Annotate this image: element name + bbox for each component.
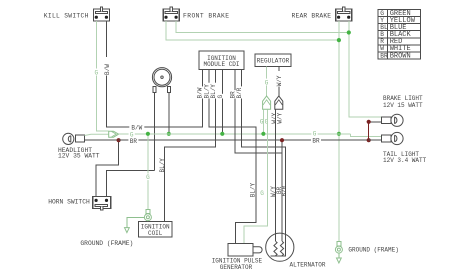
horn switch SW4 [93,197,111,211]
wire BR alternator to BR bus [281,140,283,241]
ground (frame) arrow left [125,228,130,233]
svg-text:REAR BRAKE: REAR BRAKE [292,13,332,20]
svg-text:GENERATOR: GENERATOR [220,264,253,271]
svg-text:12V 3.4 WATT: 12V 3.4 WATT [383,157,427,164]
wire G/Y rear brake right to brake light [349,21,382,117]
wire horn switch right up to horn [107,171,155,197]
svg-text:W: W [380,45,384,52]
junction dot CDI ground on G bus [220,132,224,136]
ground (frame) arrow right [337,258,342,263]
CDI pin 4 G wire to G bus [221,70,223,134]
svg-text:B/W: B/W [104,64,111,75]
wire B/W kill switch to CDI pin (B/W bus) [106,21,202,127]
ignition coil box [139,222,173,238]
wire BR branch headlight dot to horn switch left [96,140,119,196]
svg-text:BROWN: BROWN [390,52,411,60]
junction dot BR alternator on BR bus [280,138,284,142]
horn [152,68,171,93]
label B/W on horizontal B/W bus [129,124,144,131]
rear brake switch SW3 [336,9,352,21]
wire W/Y regulator to alternator [275,109,277,241]
junction dot regulator G on G bus [261,132,265,136]
svg-text:MODULE CDI: MODULE CDI [203,61,239,68]
label G on coil ground wire [145,174,151,181]
ring terminal at ignition coil [144,209,151,220]
svg-text:KILL SWITCH: KILL SWITCH [44,13,89,20]
tail light bulb [382,132,404,144]
svg-text:GROUND (FRAME): GROUND (FRAME) [348,246,398,253]
svg-text:G: G [265,79,269,86]
bullet connector regulator W/Y [275,96,283,109]
CDI pin 5 BR wire to alternator BR [235,70,282,153]
svg-text:G: G [94,70,98,77]
svg-text:G: G [217,95,224,99]
CDI pin labels B/W BL/Y BL/Y G BR B/R [197,86,204,98]
svg-text:G: G [146,174,150,181]
wire horn right terminal to G bus [168,93,170,134]
svg-text:G: G [380,10,384,17]
G bus wire across [119,133,351,135]
wire to ground frame left [127,217,144,227]
label G on kill switch green wire [93,69,99,76]
wire G kill switch to headlight connector [96,21,108,131]
CDI pin 1 B/W wire [202,70,204,128]
svg-text:B/R: B/R [281,185,288,196]
svg-text:HORN SWITCH: HORN SWITCH [48,198,90,205]
alternator coil W/Y winding [274,241,277,256]
BR bus wire across [119,139,369,141]
label BR on BR bus right [311,137,321,143]
wire BR headlight [85,139,119,141]
wire tail light from BR bus [369,139,382,141]
svg-text:R: R [380,38,384,45]
label BR on BR bus left [128,137,138,143]
regulator G wire to G bus [262,109,264,134]
front brake switch SW2 [163,9,179,21]
label G on G bus left [129,131,135,138]
junction dot BR at headlight [117,138,121,142]
svg-text:BL/Y: BL/Y [159,158,166,173]
svg-text:COIL: COIL [148,230,163,237]
svg-text:W/Y: W/Y [277,112,284,123]
regulator box [255,54,291,67]
wire G front brake left to rear brake junction [166,21,339,40]
label W/Y regulator wire [276,71,282,87]
svg-text:BL: BL [380,24,388,31]
svg-text:Y: Y [380,17,384,24]
CDI pin 2 BL/Y wire to pulse generator [209,70,256,244]
svg-text:BR: BR [380,52,388,59]
brake light bulb [382,114,404,126]
alternator coil BR winding [280,241,283,256]
svg-text:W/Y: W/Y [276,75,283,86]
wire G rear brake left down to ground (frame) right [338,21,340,241]
bullet connector regulator G [263,96,271,109]
svg-text:G: G [313,130,317,137]
junction dot rear brake left / front brake G [337,38,341,42]
headlight bulb [63,133,85,144]
G bus step down to tail light [351,134,382,137]
wire brake light lower to red junction [369,121,382,123]
svg-text:12V 35 WATT: 12V 35 WATT [58,153,100,160]
svg-text:BL/Y: BL/Y [210,84,217,99]
svg-text:BL/Y: BL/Y [250,182,257,197]
ground stub right [338,253,340,258]
alternator B/R internal wire and coil common [271,233,286,256]
wire G headlight to connector [85,134,109,135]
label G on G bus right [311,130,317,137]
svg-text:BR: BR [130,138,138,145]
junction dot coil ground on G bus [146,132,150,136]
svg-text:ALTERNATOR: ALTERNATOR [290,261,326,268]
junction dot rear brake left on G bus [337,132,341,136]
red wire between brake and tail junctions [368,122,370,140]
label G regulator wire [264,79,270,86]
wire horn left terminal to horn switch [154,93,156,171]
svg-text:BR: BR [312,137,320,144]
CDI pin 3 BL/Y wire to ignition coil [165,70,216,222]
alternator circle [266,233,294,261]
wire G ignition coil ground [147,134,149,210]
svg-text:B: B [380,31,384,38]
kill switch SW1 [94,9,110,21]
wire G regulator to pulse generator ground [244,109,268,243]
junction dot horn ground on G bus [167,132,171,136]
ignition module CDI box [199,51,244,70]
ignition pulse generator box [228,244,253,257]
CDI pin 6 B/R wire to alternator B/R [242,70,286,234]
junction dot rear brake right / front brake G/Y [347,30,351,34]
svg-text:G: G [265,119,269,126]
junction dot brake light [367,120,371,124]
label B/W vertical on kill switch wire [103,57,109,76]
wire G/Y front brake right to rear brake junction [176,21,349,33]
wire color legend table [378,10,421,61]
junction dot tail light [367,138,371,142]
regulator W/Y wire upper [278,67,280,97]
pulse generator pickup tab [253,247,262,253]
ring terminal ground right [335,241,342,253]
svg-text:GROUND (FRAME): GROUND (FRAME) [80,240,133,247]
regulator G wire upper [266,67,268,97]
svg-text:12V 15 WATT: 12V 15 WATT [383,102,423,109]
svg-text:REGULATOR: REGULATOR [257,58,290,65]
svg-text:G: G [260,190,264,197]
bullet connector headlight G [109,131,119,137]
svg-text:FRONT BRAKE: FRONT BRAKE [183,13,230,20]
svg-text:B/R: B/R [236,87,243,98]
